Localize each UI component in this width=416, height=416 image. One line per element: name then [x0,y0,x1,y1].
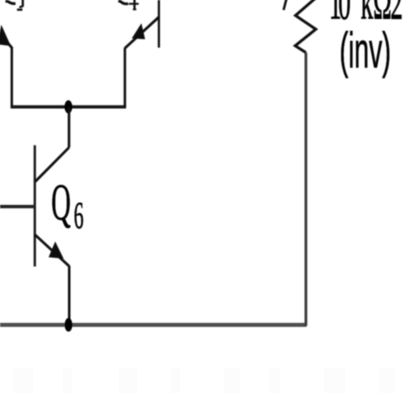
svg-text:(inv): (inv) [340,24,392,79]
svg-text:2: 2 [390,0,403,30]
